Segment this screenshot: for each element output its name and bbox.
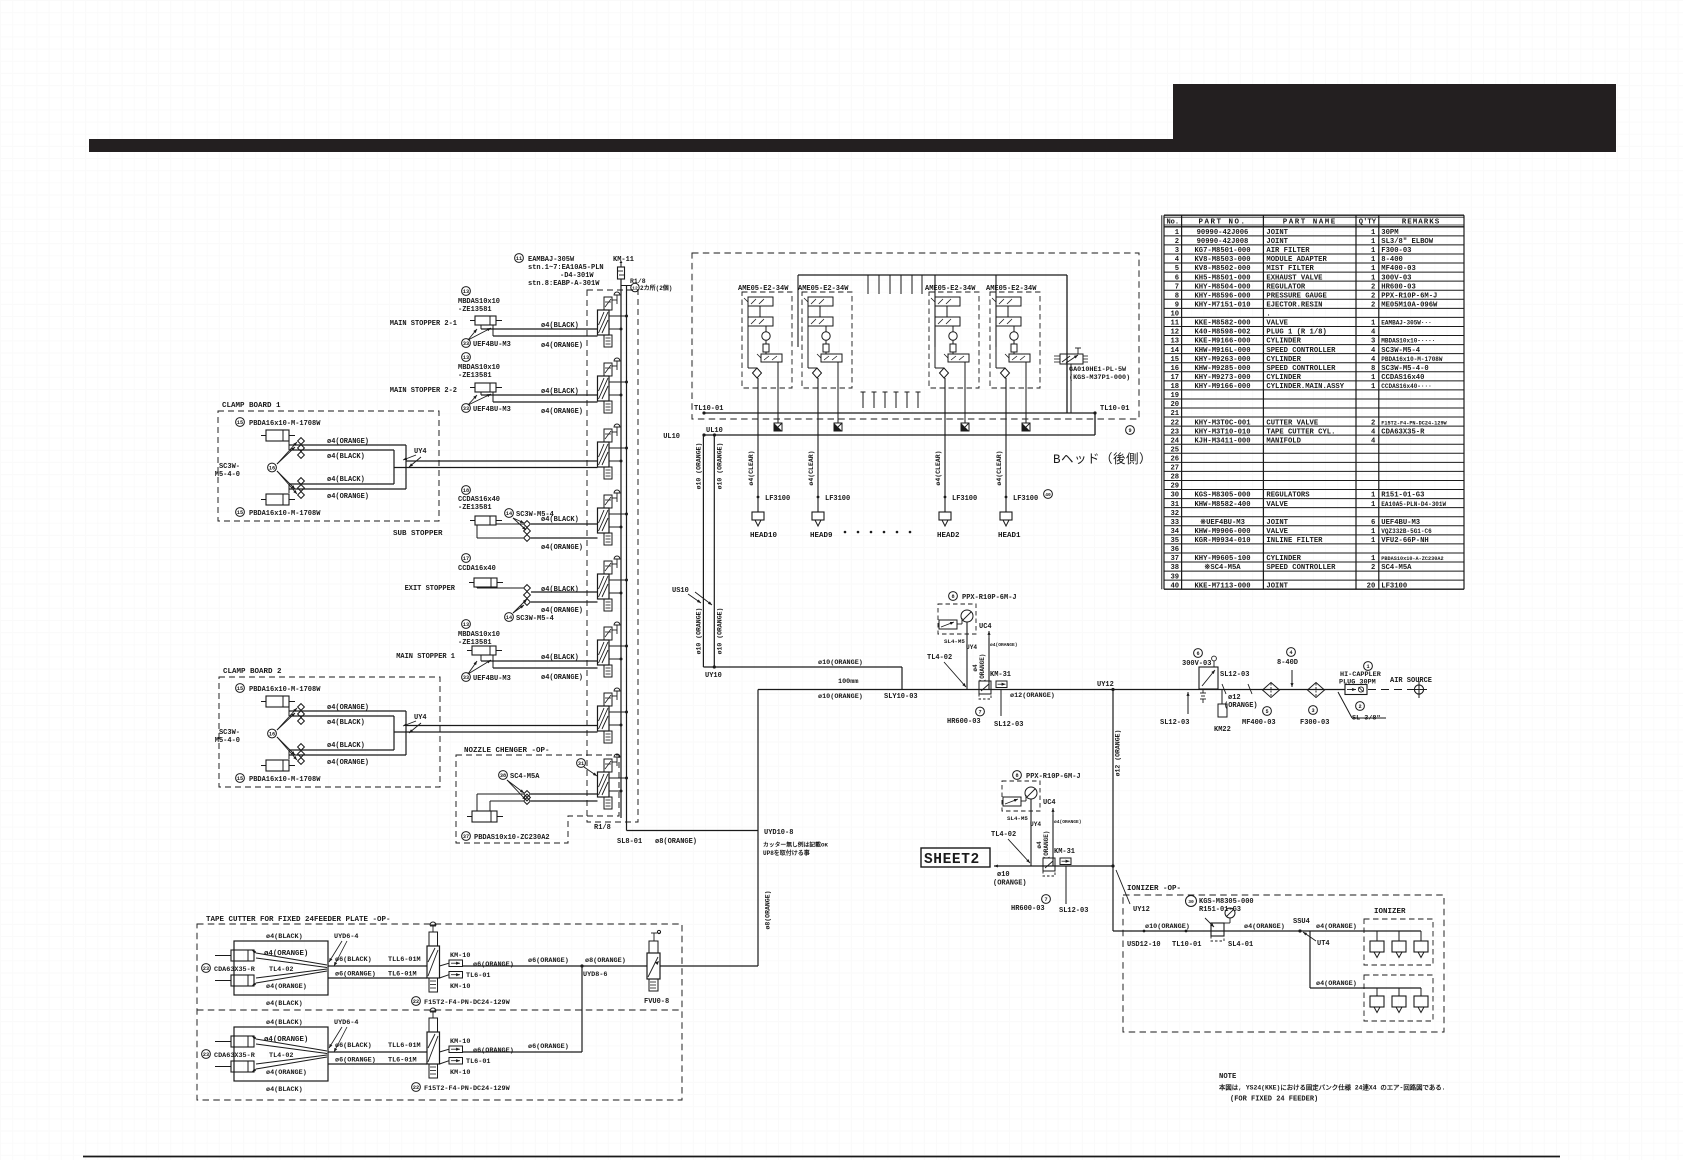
svg-text:13: 13 (463, 622, 469, 628)
svg-text:stn.8:EABP-A-301W: stn.8:EABP-A-301W (528, 280, 600, 288)
svg-text:AIR SOURCE: AIR SOURCE (1390, 677, 1432, 685)
svg-text:VFU2-66P-NH: VFU2-66P-NH (1381, 537, 1428, 545)
svg-text:F15T2-F4-PN-DC24-129W: F15T2-F4-PN-DC24-129W (424, 1085, 511, 1093)
svg-text:34: 34 (1170, 528, 1179, 536)
svg-text:KGS-M8305-000: KGS-M8305-000 (1199, 898, 1254, 906)
svg-text:SL12-03: SL12-03 (994, 721, 1023, 729)
svg-text:UC4: UC4 (979, 623, 992, 631)
svg-text:2: 2 (1371, 283, 1375, 291)
svg-text:PBDA16x10-M-1708W: PBDA16x10-M-1708W (249, 510, 321, 518)
svg-text:TL10-01: TL10-01 (694, 405, 723, 413)
svg-text:(ORANGE): (ORANGE) (1224, 702, 1258, 710)
header thin black bar (89, 139, 1174, 152)
pressure gauge assembly 2 (PPX-R10P-6M-J) (991, 771, 1088, 915)
line #12(ORANGE) vertical (1112, 690, 1114, 932)
NOZZLE CHANGER assembly (456, 747, 619, 843)
svg-text:KGS-M8305-000: KGS-M8305-000 (1194, 492, 1250, 500)
svg-text:2: 2 (1371, 564, 1375, 572)
svg-text:UEF4BU-M3: UEF4BU-M3 (473, 341, 511, 349)
svg-text:KM-11: KM-11 (613, 256, 634, 264)
svg-text:ME05M10A-096W: ME05M10A-096W (1381, 301, 1438, 309)
svg-text:UY12: UY12 (1133, 906, 1150, 914)
svg-text:KM22: KM22 (1214, 726, 1231, 734)
svg-text:ø12 (ORANGE): ø12 (ORANGE) (1115, 730, 1122, 777)
svg-text:KHY-M8504-000: KHY-M8504-000 (1194, 283, 1250, 291)
svg-text:NOTE: NOTE (1219, 1073, 1237, 1081)
svg-text:4: 4 (1371, 347, 1376, 355)
svg-text:CUTTER VALVE: CUTTER VALVE (1266, 419, 1318, 427)
svg-text:1: 1 (1371, 265, 1376, 273)
svg-text:23: 23 (203, 966, 209, 972)
svg-text:12: 12 (632, 285, 638, 291)
svg-text:KM-10: KM-10 (450, 952, 470, 960)
svg-text:19: 19 (1170, 392, 1179, 400)
svg-text:4: 4 (1371, 356, 1376, 364)
wire bus line A (620, 279, 622, 818)
svg-text:CDA63X35-R: CDA63X35-R (214, 966, 256, 974)
svg-text:TAPE CUTTER FOR FIXED 24FEEDER: TAPE CUTTER FOR FIXED 24FEEDER PLATE -OP… (206, 916, 391, 924)
svg-text:R1/8: R1/8 (594, 824, 611, 832)
svg-text:20: 20 (1367, 582, 1376, 590)
svg-text:ø4(BLACK): ø4(BLACK) (327, 476, 365, 484)
svg-text:KKE-M8582-000: KKE-M8582-000 (1194, 320, 1250, 328)
svg-text:ø4(ORANGE): ø4(ORANGE) (327, 759, 369, 767)
svg-text:VALVE: VALVE (1266, 320, 1288, 328)
svg-text:EJECTOR.RESIN: EJECTOR.RESIN (1266, 301, 1322, 309)
svg-text:ø4(CLEAR): ø4(CLEAR) (935, 450, 942, 485)
svg-text:SUB STOPPER: SUB STOPPER (393, 530, 443, 538)
svg-text:JOINT: JOINT (1266, 582, 1288, 590)
svg-text:HR600-03: HR600-03 (1011, 905, 1045, 913)
svg-text:ø6(ORANGE): ø6(ORANGE) (335, 1057, 376, 1065)
svg-text:UY10: UY10 (705, 672, 722, 680)
svg-text:CYLINDER: CYLINDER (1266, 555, 1301, 563)
feed line UL10 left (702, 435, 704, 667)
svg-text:SC4-M5A: SC4-M5A (1381, 564, 1412, 572)
cylinder MAIN STOPPER 1 with wires (396, 620, 597, 683)
svg-text:MBDAS10x10: MBDAS10x10 (458, 631, 500, 639)
solenoid valve V5 (598, 556, 629, 611)
svg-text:5: 5 (1265, 709, 1268, 715)
svg-text:8: 8 (1371, 365, 1375, 373)
svg-text:KJH-M3411-000: KJH-M3411-000 (1194, 437, 1250, 445)
svg-text:F15T2-F4-PN-DC24-129W: F15T2-F4-PN-DC24-129W (1381, 420, 1447, 426)
label #10 (ORANGE) rot d (716, 608, 723, 655)
svg-text:PBDA16x10-M-1708W: PBDA16x10-M-1708W (249, 776, 321, 784)
svg-text:ø4(BLACK): ø4(BLACK) (541, 388, 579, 396)
svg-text:F300-03: F300-03 (1381, 247, 1411, 255)
svg-text:PBDA16x10-M-1708W: PBDA16x10-M-1708W (249, 420, 321, 428)
svg-text:KH5-M8501-000: KH5-M8501-000 (1194, 274, 1250, 282)
svg-text:ø4(CLEAR): ø4(CLEAR) (996, 450, 1003, 485)
svg-text:PART NO.: PART NO. (1198, 218, 1246, 226)
svg-text:14: 14 (506, 511, 512, 517)
svg-text:LF3100: LF3100 (952, 495, 977, 503)
svg-text:ø6(ORANGE): ø6(ORANGE) (528, 1043, 569, 1051)
svg-text:ø4(BLACK): ø4(BLACK) (327, 719, 365, 727)
svg-text:TAPE CUTTER CYL.: TAPE CUTTER CYL. (1266, 428, 1335, 436)
main supply line (758, 689, 1345, 691)
svg-text:PLUG 1 (R 1/8): PLUG 1 (R 1/8) (1266, 329, 1326, 337)
svg-text:SL12-03: SL12-03 (1220, 671, 1249, 679)
svg-text:CYLINDER: CYLINDER (1266, 338, 1301, 346)
svg-text:ø4(ORANGE): ø4(ORANGE) (541, 607, 583, 615)
svg-text:4: 4 (1371, 428, 1376, 436)
svg-text:25: 25 (1170, 446, 1179, 454)
svg-text:16: 16 (269, 731, 275, 737)
svg-text:38: 38 (1170, 564, 1179, 572)
svg-text:1: 1 (1371, 501, 1376, 509)
svg-text:14: 14 (506, 615, 512, 621)
svg-text:15: 15 (237, 686, 243, 692)
svg-text:MAIN STOPPER 1: MAIN STOPPER 1 (396, 653, 455, 661)
svg-text:40: 40 (1045, 492, 1051, 498)
svg-text:(ORANGE): (ORANGE) (979, 654, 986, 683)
svg-text:SL8-01: SL8-01 (617, 838, 642, 846)
svg-text:TL6-01: TL6-01 (466, 972, 490, 980)
svg-text:23: 23 (1170, 428, 1179, 436)
svg-text:※SC4-M5A: ※SC4-M5A (1204, 563, 1241, 572)
svg-text:ø4(ORANGE): ø4(ORANGE) (264, 950, 308, 958)
ionizer bank 2 box (1364, 975, 1433, 1021)
svg-text:LF3100: LF3100 (765, 495, 790, 503)
svg-text:SL4-M5: SL4-M5 (1007, 815, 1028, 822)
SHEET2 reference box (921, 848, 990, 868)
svg-text:CCDAS16x40: CCDAS16x40 (1381, 374, 1424, 382)
svg-text:UEF4BU-M3: UEF4BU-M3 (1381, 519, 1420, 527)
svg-text:2: 2 (1371, 419, 1375, 427)
manifold bottom port ticks (861, 392, 921, 408)
svg-text:PPX-R10P-6M-J: PPX-R10P-6M-J (1026, 773, 1081, 781)
svg-text:ø4: ø4 (1036, 841, 1043, 849)
svg-text:JOINT: JOINT (1266, 238, 1288, 246)
ejector unit HEAD1 (986, 285, 1040, 540)
svg-text:VALVE: VALVE (1266, 501, 1288, 509)
svg-text:31: 31 (1170, 501, 1179, 509)
svg-text:ø4(ORANGE): ø4(ORANGE) (327, 493, 369, 501)
svg-text:12: 12 (1170, 329, 1179, 337)
svg-text:30: 30 (1188, 899, 1194, 905)
svg-text:ø8(ORANGE): ø8(ORANGE) (765, 890, 772, 929)
svg-text:VALVE: VALVE (1266, 528, 1288, 536)
svg-text:ø8(ORANGE): ø8(ORANGE) (585, 957, 626, 965)
svg-text:EAMBAJ-305W···: EAMBAJ-305W··· (1381, 320, 1431, 327)
label #10 (ORANGE) rot c (695, 608, 702, 655)
svg-text:KM-10: KM-10 (450, 1069, 470, 1077)
label 12 - 2 places (631, 283, 639, 291)
svg-text:カッター無し例は記載OK: カッター無し例は記載OK (763, 841, 828, 849)
svg-text:KV8-M8502-000: KV8-M8502-000 (1194, 265, 1250, 273)
svg-text:KM-10: KM-10 (450, 983, 470, 991)
svg-text:ø4(BLACK): ø4(BLACK) (541, 654, 579, 662)
svg-text:KHY-M3T10-010: KHY-M3T10-010 (1194, 428, 1250, 436)
ionizer units bank 2 (1370, 988, 1428, 1013)
svg-text:14: 14 (1170, 347, 1179, 355)
svg-text:-D4-301W: -D4-301W (560, 272, 594, 280)
svg-text:15: 15 (237, 510, 243, 516)
svg-text:ø4(BLACK): ø4(BLACK) (541, 516, 579, 524)
svg-text:UYD6-4: UYD6-4 (334, 1019, 358, 1027)
joint SL 3/8 (1338, 692, 1352, 718)
svg-text:SPEED CONTROLLER: SPEED CONTROLLER (1266, 365, 1336, 373)
svg-text:11: 11 (516, 256, 522, 262)
svg-text:KV8-M8503-000: KV8-M8503-000 (1194, 256, 1250, 264)
svg-text:15: 15 (237, 420, 243, 426)
label #8(ORANGE) rot (765, 890, 772, 929)
svg-text:HEAD1: HEAD1 (998, 532, 1021, 540)
svg-text:7: 7 (978, 709, 981, 715)
svg-text:HEAD10: HEAD10 (750, 532, 778, 540)
wire UY10 horizontal (703, 666, 902, 668)
cylinder MAIN STOPPER 2-1 with wires (390, 287, 598, 350)
wire unit1 to FVU0-8 (463, 965, 648, 967)
svg-text:UEF4BU-M3: UEF4BU-M3 (473, 406, 511, 414)
svg-text:2: 2 (1175, 238, 1179, 246)
svg-text:UEF4BU-M3: UEF4BU-M3 (473, 675, 511, 683)
svg-text:M5-4-0: M5-4-0 (215, 471, 240, 479)
svg-text:SLY10-03: SLY10-03 (884, 693, 918, 701)
svg-text:MBDAS10x10-····: MBDAS10x10-···· (1381, 338, 1435, 345)
svg-text:32: 32 (1170, 510, 1179, 518)
svg-text:-ZE13581: -ZE13581 (458, 372, 492, 380)
coupler HI-CAPPLER PLUG 30PM (1339, 662, 1382, 695)
svg-text:CYLINDER.MAIN.ASSY: CYLINDER.MAIN.ASSY (1266, 383, 1344, 391)
svg-text:MODULE ADAPTER: MODULE ADAPTER (1266, 256, 1327, 264)
svg-text:ø4(ORANGE): ø4(ORANGE) (266, 983, 307, 991)
solenoid valve V3 (598, 424, 629, 479)
svg-text:2: 2 (1371, 301, 1375, 309)
svg-text:KHW-M9285-000: KHW-M9285-000 (1194, 365, 1250, 373)
svg-text:SL4-M5: SL4-M5 (944, 638, 965, 645)
svg-text:7: 7 (1175, 283, 1179, 291)
rail lower UL10 (704, 434, 1095, 436)
svg-text:F300-03: F300-03 (1300, 719, 1329, 727)
svg-text:8: 8 (1015, 773, 1018, 779)
svg-text:KHY-M9263-000: KHY-M9263-000 (1194, 356, 1250, 364)
svg-text:EAMBAJ-305W: EAMBAJ-305W (528, 256, 575, 264)
ejector unit HEAD9 (798, 285, 852, 540)
svg-text:CDA63X35-R: CDA63X35-R (1381, 428, 1425, 436)
svg-text:3: 3 (1175, 247, 1179, 255)
svg-text:(ORANGE): (ORANGE) (993, 880, 1027, 888)
svg-text:UYD8-6: UYD8-6 (583, 971, 607, 979)
svg-text:TL10-01: TL10-01 (1100, 405, 1129, 413)
svg-text:2カ所(2個): 2カ所(2個) (640, 284, 672, 292)
svg-text:TL4-02: TL4-02 (991, 831, 1016, 839)
CLAMP BOARD 1 assembly (215, 402, 439, 521)
svg-text:ø4(BLACK): ø4(BLACK) (266, 1086, 303, 1094)
svg-text:33: 33 (1170, 519, 1179, 527)
svg-text:HR600-03: HR600-03 (947, 718, 981, 726)
svg-text:KKE-M7113-000: KKE-M7113-000 (1194, 582, 1250, 590)
pressure gauge assembly 1 (PPX-R10P-6M-J) (927, 592, 1023, 729)
svg-text:UY4: UY4 (1030, 821, 1041, 828)
svg-text:SC3W-: SC3W- (219, 463, 240, 471)
svg-text:JOINT: JOINT (1266, 229, 1288, 237)
svg-text:1: 1 (1371, 374, 1376, 382)
marker 9 (1126, 426, 1135, 435)
svg-text:6: 6 (1196, 651, 1199, 657)
svg-text:SC3W-M5-4-0: SC3W-M5-4-0 (1381, 365, 1428, 373)
svg-text:CYLINDER: CYLINDER (1266, 374, 1301, 382)
svg-text:2: 2 (1358, 704, 1361, 710)
svg-text:CLAMP BOARD 2: CLAMP BOARD 2 (223, 668, 282, 676)
svg-text:16: 16 (1170, 365, 1179, 373)
svg-text:ø4(ORANGE): ø4(ORANGE) (1244, 923, 1285, 931)
module adapter 8-40D (1287, 648, 1296, 657)
svg-text:UYD10-8: UYD10-8 (764, 829, 793, 837)
svg-text:35: 35 (1170, 537, 1179, 545)
svg-text:37: 37 (1170, 555, 1179, 563)
label #10 (ORANGE) rot a (695, 443, 702, 490)
svg-text:EA10A5-PLN-D4-301W: EA10A5-PLN-D4-301W (1381, 501, 1446, 508)
svg-text:KKE-M9166-000: KKE-M9166-000 (1194, 338, 1250, 346)
dashed stub to air source (1368, 689, 1411, 691)
svg-text:15: 15 (1170, 356, 1179, 364)
svg-text:ø4(ORANGE): ø4(ORANGE) (327, 704, 369, 712)
mist filter MF400-03 (1263, 683, 1280, 698)
svg-text:MF400-03: MF400-03 (1381, 265, 1416, 273)
svg-text:33: 33 (463, 341, 469, 347)
svg-text:1: 1 (1366, 664, 1369, 670)
bottom border line (83, 1156, 1560, 1158)
svg-text:39: 39 (1170, 573, 1179, 581)
svg-text:AIR FILTER: AIR FILTER (1266, 247, 1310, 255)
svg-text:ø10 (ORANGE): ø10 (ORANGE) (716, 443, 723, 490)
svg-text:UY4: UY4 (966, 644, 977, 651)
svg-text:本図は, YS24(KKE)における固定バンク仕様 24連X: 本図は, YS24(KKE)における固定バンク仕様 24連X4 のエア-回路図で… (1219, 1083, 1446, 1092)
svg-text:ø10(ORANGE): ø10(ORANGE) (1145, 923, 1190, 931)
svg-text:1: 1 (1371, 247, 1376, 255)
svg-text:ø4: ø4 (972, 664, 979, 672)
svg-text:K40-M8598-002: K40-M8598-002 (1194, 329, 1250, 337)
ionizer branch drop (1309, 931, 1311, 988)
tape cutter dashed enclosure (197, 924, 682, 1100)
svg-text:PBDA16x10-M-1708W: PBDA16x10-M-1708W (1381, 356, 1443, 363)
svg-text:CCDAS16x40: CCDAS16x40 (458, 496, 500, 504)
svg-text:-ZE13581: -ZE13581 (458, 504, 492, 512)
svg-text:ø4(ORANGE): ø4(ORANGE) (541, 342, 583, 350)
solenoid valve V4 (598, 490, 629, 545)
svg-text:9: 9 (1175, 301, 1179, 309)
svg-text:ø4(BLACK): ø4(BLACK) (266, 1000, 303, 1008)
svg-text:22: 22 (413, 1085, 419, 1091)
ejector unit HEAD10 (738, 285, 792, 540)
svg-text:24: 24 (1170, 437, 1179, 445)
svg-text:-ZE13581: -ZE13581 (458, 306, 492, 314)
svg-text:ø4(ORANGE): ø4(ORANGE) (541, 544, 583, 552)
svg-text:HR600-03: HR600-03 (1381, 283, 1416, 291)
svg-text:CLAMP BOARD 1: CLAMP BOARD 1 (222, 402, 281, 410)
svg-text:38: 38 (500, 773, 506, 779)
rail TL10-01 upper (704, 412, 1095, 414)
solenoid valve V6 (598, 622, 629, 677)
svg-text:29: 29 (1170, 483, 1179, 491)
svg-text:CCDA16x40: CCDA16x40 (458, 565, 496, 573)
svg-text:28: 28 (1170, 474, 1179, 482)
svg-text:1: 1 (1371, 383, 1376, 391)
svg-text:IONIZER: IONIZER (1374, 908, 1406, 916)
wire UY4 pair to valve V3 (406, 460, 598, 462)
svg-text:LF3100: LF3100 (825, 495, 850, 503)
svg-text:KHY-M9273-000: KHY-M9273-000 (1194, 374, 1250, 382)
ejector system dashed enclosure (692, 253, 1139, 419)
svg-text:40: 40 (1170, 582, 1179, 590)
svg-text:8: 8 (951, 594, 954, 600)
svg-text:HEAD2: HEAD2 (937, 532, 960, 540)
svg-text:1: 1 (1371, 256, 1376, 264)
label #10 (ORANGE) rot b (716, 443, 723, 490)
svg-text:HEAD9: HEAD9 (810, 532, 833, 540)
wire UY4 pair to valve V7 (406, 725, 598, 727)
svg-text:MANIFOLD: MANIFOLD (1266, 437, 1301, 445)
header title block (solid black) (1173, 84, 1616, 152)
svg-text:UL10: UL10 (706, 427, 723, 435)
tape cutter divider (197, 1009, 682, 1011)
svg-text:18: 18 (1170, 383, 1179, 391)
svg-text:CYLINDER: CYLINDER (1266, 356, 1301, 364)
svg-text:37: 37 (463, 834, 469, 840)
svg-text:18: 18 (463, 488, 469, 494)
svg-text:KHW-M916L-000: KHW-M916L-000 (1194, 347, 1250, 355)
svg-text:ø4(ORANGE): ø4(ORANGE) (541, 408, 583, 416)
svg-text:REGULATOR: REGULATOR (1266, 283, 1306, 291)
svg-text:REGULATORS: REGULATORS (1266, 492, 1310, 500)
svg-text:SSU4: SSU4 (1293, 918, 1310, 926)
svg-text:16: 16 (269, 465, 275, 471)
svg-text:JOINT: JOINT (1266, 519, 1288, 527)
tape cutter junction riser (581, 966, 583, 1052)
wire FVU0-8 riser (757, 831, 759, 966)
svg-text:13: 13 (463, 289, 469, 295)
valve column dashed enclosure (587, 290, 638, 822)
svg-text:ø4(ORANGE): ø4(ORANGE) (1054, 819, 1082, 825)
ionizer bank 1 box (1364, 919, 1433, 965)
svg-text:20: 20 (1170, 401, 1179, 409)
svg-text:MIST FILTER: MIST FILTER (1266, 265, 1314, 273)
tape cutter unit 1 (202, 922, 569, 1008)
svg-text:3: 3 (1371, 338, 1375, 346)
svg-text:300V-03: 300V-03 (1381, 274, 1411, 282)
svg-text:Q'TY: Q'TY (1359, 218, 1377, 226)
solenoid valve V8 (598, 754, 629, 809)
svg-text:ø4(BLACK): ø4(BLACK) (327, 453, 365, 461)
svg-text:ø6(ORANGE): ø6(ORANGE) (473, 1047, 514, 1055)
svg-text:1: 1 (1371, 528, 1376, 536)
svg-text:ø10 (ORANGE): ø10 (ORANGE) (716, 608, 723, 655)
svg-text:SPEED CONTROLLER: SPEED CONTROLLER (1266, 347, 1336, 355)
ejector unit HEAD2 (925, 285, 979, 540)
svg-text:ø10 (ORANGE): ø10 (ORANGE) (695, 443, 702, 490)
svg-text:KM-10: KM-10 (450, 1038, 470, 1046)
svg-text:KHW-M9906-000: KHW-M9906-000 (1194, 528, 1250, 536)
svg-text:EXIT STOPPER: EXIT STOPPER (405, 585, 456, 593)
svg-text:KM-31: KM-31 (1054, 848, 1075, 856)
svg-text:ø4(BLACK): ø4(BLACK) (541, 322, 579, 330)
svg-text:FVU0-8: FVU0-8 (644, 998, 669, 1006)
ionizer feed line (1113, 930, 1421, 932)
svg-text:ø4(ORANGE): ø4(ORANGE) (990, 642, 1018, 648)
svg-text:ø6(ORANGE): ø6(ORANGE) (335, 971, 376, 979)
svg-text:KHY-M9605-100: KHY-M9605-100 (1194, 555, 1250, 563)
svg-text:ø4(ORANGE): ø4(ORANGE) (266, 1069, 307, 1077)
solenoid valve V7 (598, 688, 629, 743)
svg-text:ø4(BLACK): ø4(BLACK) (327, 742, 365, 750)
svg-text:UC4: UC4 (1043, 799, 1056, 807)
svg-text:R151-01-G3: R151-01-G3 (1381, 492, 1424, 500)
wire unit2 run (463, 1051, 583, 1053)
svg-text:NOZZLE CHENGER -OP-: NOZZLE CHENGER -OP- (464, 747, 550, 755)
